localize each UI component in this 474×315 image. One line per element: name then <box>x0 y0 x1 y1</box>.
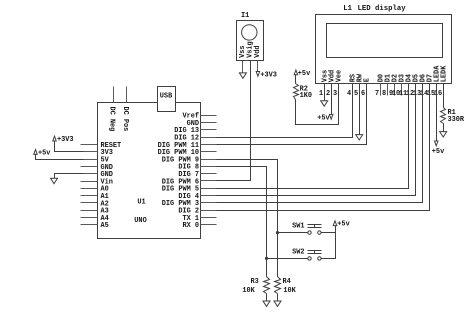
svg-text:7: 7 <box>375 90 379 98</box>
LCD L1 body <box>316 15 452 84</box>
+5v power symbol (LCD Vdd) <box>329 114 333 119</box>
svg-text:+5v: +5v <box>432 148 445 156</box>
svg-text:A5: A5 <box>101 222 109 230</box>
svg-text:SW1: SW1 <box>292 223 304 231</box>
I1 Vss pin <box>242 61 244 73</box>
U1 left pin labels <box>101 142 122 230</box>
svg-text:+5v: +5v <box>317 115 330 123</box>
ground (LCD Vss) <box>321 101 328 106</box>
svg-text:U1: U1 <box>137 198 145 206</box>
wire LCD D5 to U1 DIG 4 <box>217 84 416 196</box>
ground (R1) <box>440 132 447 137</box>
wire I1 Vsig to U1 DIG PWM 6 <box>217 61 251 181</box>
wire LCD Vdd to +5v <box>331 84 333 115</box>
LCD pin labels <box>321 65 448 82</box>
wire R4 junction to SW1 <box>278 232 308 234</box>
svg-text:+3V3: +3V3 <box>57 136 74 144</box>
wire LCD Vee to R2 <box>296 84 339 125</box>
resistor R4 <box>275 277 281 294</box>
ground (R4) <box>274 301 281 306</box>
wire U1 DIG 8 to SW2 / R3 <box>217 167 267 277</box>
junction (SW2 / R3) <box>265 257 268 260</box>
resistor R1 <box>441 108 446 124</box>
wire R4 to ground <box>277 294 279 302</box>
svg-text:10K: 10K <box>242 287 255 295</box>
+3V3 power symbol (left) <box>53 136 57 141</box>
resistor R3 <box>264 277 270 294</box>
Arduino UNO U1 body <box>98 103 201 239</box>
svg-text:1: 1 <box>319 90 323 98</box>
svg-text:LEDK: LEDK <box>440 65 448 82</box>
svg-text:R4: R4 <box>283 278 291 286</box>
wire LCD RS to U1 DIG 12 <box>217 84 353 138</box>
LCD pin stubs <box>325 84 444 96</box>
svg-text:5: 5 <box>354 90 358 98</box>
svg-text:6: 6 <box>361 90 365 98</box>
wire LCD D6 to U1 DIG PWM 3 <box>217 84 423 203</box>
U1 left pin stubs <box>81 145 98 225</box>
junction (SW1 / R4) <box>276 231 279 234</box>
svg-text:330R: 330R <box>448 116 465 124</box>
U1 right pin labels <box>158 113 199 231</box>
wire R3 to ground <box>266 294 268 302</box>
svg-text:E: E <box>363 78 371 82</box>
sensor I1 body <box>237 21 264 61</box>
wire U1 GND to ground <box>55 174 84 179</box>
U1 DC Neg pin <box>113 87 115 103</box>
+5v power symbol (switches) <box>333 221 337 226</box>
svg-text:L1: L1 <box>343 5 352 13</box>
wire LCD Vss to ground <box>324 84 326 101</box>
svg-text:4: 4 <box>347 90 351 98</box>
wire +5v to U1 5V <box>36 155 84 160</box>
+5v power symbol (left) <box>34 150 38 155</box>
svg-text:+3V3: +3V3 <box>260 72 277 80</box>
svg-text:8: 8 <box>382 90 386 98</box>
svg-text:I1: I1 <box>241 12 249 20</box>
svg-text:UNO: UNO <box>134 217 146 225</box>
wire SW2 to +5v rail <box>322 226 336 259</box>
svg-text:DC Neg: DC Neg <box>108 107 116 132</box>
+3V3 power symbol (I1 Vdd) <box>256 72 260 77</box>
wire LCD RW to ground <box>359 84 361 135</box>
svg-text:DC Pos: DC Pos <box>121 107 129 132</box>
svg-text:16: 16 <box>434 90 442 98</box>
wire LCD D4 to U1 DIG PWM 5 <box>217 84 409 189</box>
U1 USB connector box <box>158 87 176 112</box>
svg-text:Vee: Vee <box>335 70 343 82</box>
I1 Vdd pin <box>257 61 259 72</box>
wire U1 DIG PWM 9 to SW1 / R4 <box>217 160 278 277</box>
wire SW1 to +5v rail <box>322 232 336 234</box>
pushbutton SW2 <box>308 251 322 261</box>
svg-text:10K: 10K <box>283 287 296 295</box>
LCD screen <box>327 24 443 58</box>
U1 right pin stubs <box>201 116 217 225</box>
pushbutton SW1 <box>308 225 322 235</box>
wire R3 junction to SW2 <box>267 258 308 260</box>
ground (LCD RW) <box>356 135 363 140</box>
+5v power symbol (R2) <box>294 70 298 75</box>
LCD pin numbers 1-16 <box>319 90 442 98</box>
I1 circle <box>242 25 257 40</box>
svg-text:USB: USB <box>160 92 172 100</box>
wire LCD LEDK to R1 <box>443 84 445 108</box>
svg-text:RX 0: RX 0 <box>182 222 199 230</box>
wire +3V3 to U1 3V3 <box>55 141 84 152</box>
svg-text:+5v: +5v <box>337 221 350 229</box>
svg-text:+5v: +5v <box>298 70 311 78</box>
ground (left of U1) <box>51 178 58 183</box>
+5v power symbol (LCD LEDA) <box>434 141 438 146</box>
wire LCD E to U1 DIG PWM 11 <box>217 84 367 145</box>
svg-text:R3: R3 <box>251 278 259 286</box>
wire LCD D7 to U1 DIG 2 <box>217 84 430 211</box>
U1 DC Pos pin <box>126 87 128 103</box>
svg-text:1K0: 1K0 <box>300 92 312 100</box>
svg-text:LED display: LED display <box>358 5 407 13</box>
svg-text:SW2: SW2 <box>292 248 304 256</box>
wire R1 to ground <box>443 124 445 132</box>
wire LCD LEDA to +5v <box>436 84 438 142</box>
svg-text:3: 3 <box>333 90 337 98</box>
svg-text:2: 2 <box>326 90 330 98</box>
ground (I1 Vss) <box>239 73 246 78</box>
resistor R2 <box>294 84 299 100</box>
svg-text:+5v: +5v <box>38 150 51 158</box>
ground (R3) <box>263 301 270 306</box>
wire R2 to +5v <box>295 75 297 84</box>
svg-text:Vdd: Vdd <box>254 45 262 57</box>
